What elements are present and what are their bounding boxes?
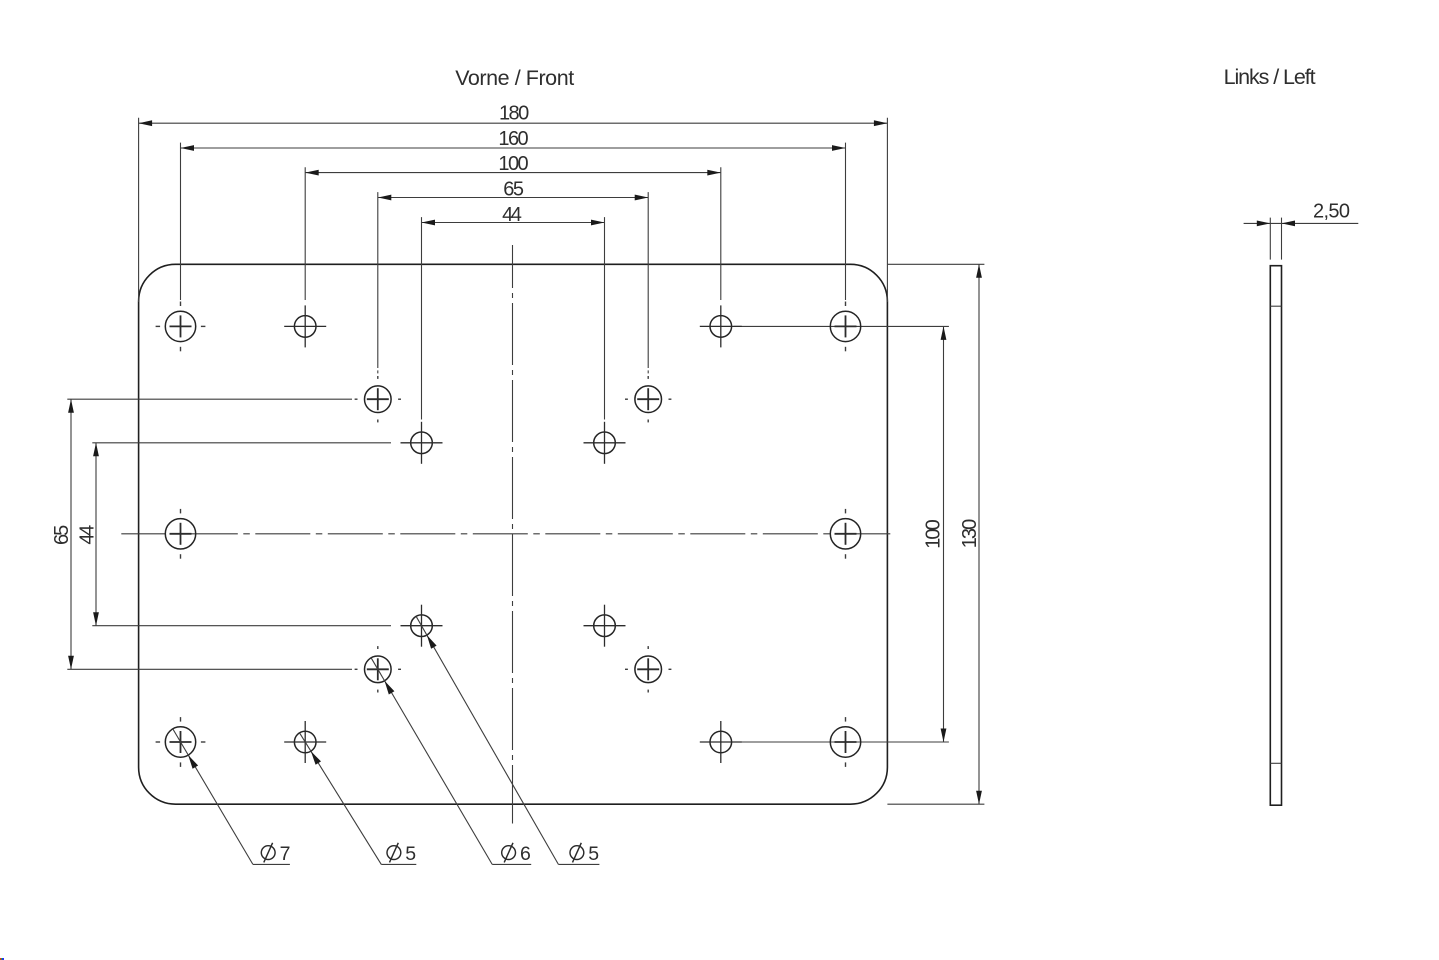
dimension 65 extension lines (378, 192, 648, 373)
svg-text:180: 180 (499, 102, 529, 124)
dimension 44 line (422, 220, 605, 226)
callout Ø5 text (387, 843, 416, 865)
hole top Ø5 right (700, 305, 742, 347)
dimension 100 text (498, 153, 528, 175)
svg-text:7: 7 (280, 843, 291, 865)
corner artifact (0, 958, 4, 960)
dimension 2,50 extension lines (1270, 218, 1281, 260)
hole upper Ø5 left (401, 422, 443, 464)
plate outline front view (139, 264, 888, 804)
dimension 65 line (378, 195, 648, 201)
dimension 160 line (181, 145, 846, 151)
hole middle-left Ø7 (165, 509, 195, 559)
dimension 44 text (502, 204, 522, 226)
dimension 160 extension lines (181, 143, 846, 300)
callout Ø6 leader (371, 658, 531, 865)
callout Ø5 second text (570, 843, 599, 865)
dimension 130 right extension lines (887, 264, 984, 804)
svg-text:5: 5 (405, 843, 416, 865)
callout Ø7 text (261, 843, 290, 865)
hole lower Ø5 right (584, 605, 626, 647)
svg-text:65: 65 (51, 525, 73, 545)
hole top Ø5 left (284, 305, 326, 347)
dimension 100 line (305, 170, 721, 176)
svg-text:44: 44 (77, 525, 99, 545)
callout Ø6 text (502, 843, 531, 865)
hole bottom-left Ø7 (156, 717, 206, 767)
svg-text:160: 160 (498, 128, 528, 150)
hole lower Ø6 right (625, 646, 671, 692)
dimension 100 right line (941, 326, 947, 742)
hole top-left Ø7 (156, 302, 206, 352)
dimension 180 text (499, 102, 529, 124)
dimension 130 right line (976, 264, 982, 804)
dimension 100 right text (923, 519, 945, 549)
view title Links / Left (1224, 65, 1316, 89)
hole lower Ø5 left (401, 605, 443, 647)
side view fillet tangent line top (1270, 305, 1281, 307)
dimension 100 right extension lines (734, 326, 949, 742)
svg-text:100: 100 (498, 153, 528, 175)
dimension 44 extension lines (422, 217, 605, 419)
dimension 2,50 line (1244, 221, 1359, 227)
svg-text:Links / Left: Links / Left (1224, 65, 1316, 89)
callout Ø7 leader (173, 729, 290, 865)
hole bottom Ø5 right (700, 721, 742, 763)
svg-text:Vorne / Front: Vorne / Front (455, 66, 574, 90)
dimension 180 line (139, 120, 888, 126)
dimension 65 text (503, 179, 524, 201)
hole bottom-right Ø7 (830, 717, 860, 767)
dimension 160 text (498, 128, 528, 150)
dimension 100 extension lines (305, 167, 721, 300)
hole upper Ø6 left (355, 376, 401, 422)
dimension 65 vertical extension lines (67, 399, 352, 669)
side view fillet tangent line bottom (1270, 762, 1281, 764)
svg-text:100: 100 (923, 519, 945, 549)
dimension 44 vertical extension lines (92, 443, 391, 626)
dimension 44 vertical text (77, 525, 99, 545)
hole lower Ø6 left (355, 646, 401, 692)
vertical centre line (512, 245, 514, 824)
side view plate outline (1270, 266, 1281, 806)
svg-text:2,50: 2,50 (1313, 200, 1350, 222)
callout Ø5 second leader (416, 616, 599, 864)
hole top-right Ø7 (830, 302, 860, 352)
dimension 2,50 text (1313, 200, 1350, 222)
svg-text:130: 130 (959, 519, 981, 549)
view title Vorne / Front (455, 66, 574, 90)
hole bottom Ø5 left (284, 721, 326, 763)
dimension 65 vertical line (68, 399, 74, 669)
dimension 65 vertical text (51, 525, 73, 545)
callout Ø5 leader (300, 733, 417, 865)
hole upper Ø5 right (584, 422, 626, 464)
svg-text:6: 6 (520, 843, 531, 865)
hole middle-right Ø7 (830, 509, 860, 559)
dimension 130 right text (959, 519, 981, 549)
hole upper Ø6 right (625, 376, 671, 422)
svg-text:5: 5 (588, 843, 599, 865)
horizontal centre line (121, 533, 895, 535)
dimension 44 vertical line (93, 443, 99, 626)
dimension 180 extension lines (139, 118, 888, 302)
